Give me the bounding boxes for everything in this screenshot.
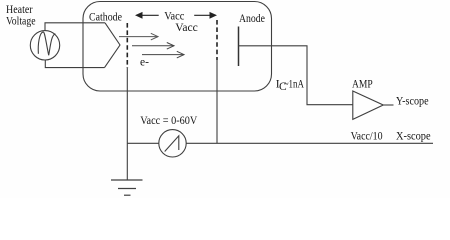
Vacc span arrow (left half) bbox=[135, 12, 159, 19]
wire: Vacc supply rail to X-scope bbox=[186, 142, 433, 144]
grid G2 (dashed) bbox=[216, 20, 218, 60]
AC source V1 (heater supply) bbox=[30, 31, 59, 60]
svg-text:Anode: Anode bbox=[239, 13, 265, 25]
svg-text:X-scope: X-scope bbox=[396, 130, 431, 142]
anode plate A bbox=[238, 27, 240, 67]
wire: cathode/grid return down to ground node bbox=[126, 68, 128, 180]
vacuum tube envelope bbox=[83, 2, 272, 92]
svg-text:Vacc = 0-60V: Vacc = 0-60V bbox=[140, 115, 198, 127]
svg-text:Vacc: Vacc bbox=[164, 11, 184, 23]
wire: AMP output to Y-scope bbox=[383, 104, 393, 106]
svg-text:Vacc/10: Vacc/10 bbox=[351, 130, 383, 142]
svg-text:Voltage: Voltage bbox=[6, 15, 36, 27]
electron arrow 3 bbox=[142, 51, 184, 58]
Vacc span arrow (right half) bbox=[194, 12, 217, 19]
svg-text:AMP: AMP bbox=[352, 79, 373, 91]
svg-text:~1nA: ~1nA bbox=[284, 79, 305, 91]
Vacc ramp supply V2 bbox=[159, 130, 186, 157]
electron arrow 1 bbox=[119, 33, 158, 40]
ground bbox=[111, 180, 143, 195]
wire: anode to AMP input bbox=[239, 46, 353, 105]
amplifier U1 (AMP triangle) bbox=[353, 91, 384, 119]
svg-text:Cathode: Cathode bbox=[89, 12, 122, 24]
wire: ground node to Vacc supply bbox=[127, 142, 159, 144]
svg-text:Heater: Heater bbox=[6, 4, 33, 16]
label: Heater Voltage bbox=[6, 4, 36, 27]
svg-text:Y-scope: Y-scope bbox=[396, 96, 429, 108]
svg-text:Vacc: Vacc bbox=[175, 22, 198, 34]
wire: heater top lead bbox=[45, 23, 105, 31]
grid G1 (dashed) bbox=[126, 23, 128, 68]
label: Ic ~1nA bbox=[276, 79, 305, 93]
cathode K bbox=[105, 23, 121, 68]
svg-text:e-: e- bbox=[140, 57, 149, 69]
wire: heater bottom lead bbox=[45, 60, 104, 68]
wire: grid G2 down to Vacc supply rail bbox=[216, 60, 218, 143]
electron arrow 2 bbox=[132, 43, 174, 50]
